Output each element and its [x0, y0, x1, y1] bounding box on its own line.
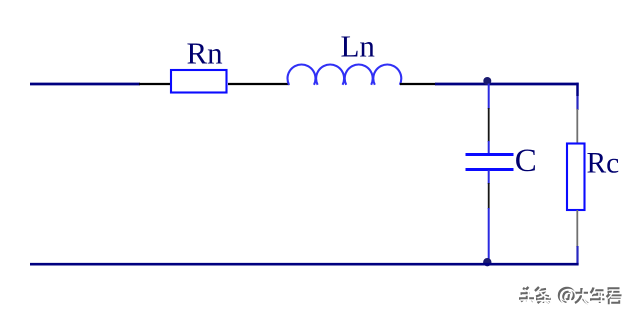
wire gray lead below Rc — [576, 210, 578, 247]
svg-text:Rc: Rc — [587, 148, 620, 180]
wire capacitor branch blue stub above plate — [488, 141, 490, 154]
svg-text:C: C — [515, 143, 537, 179]
wire capacitor branch blue stub below junction — [488, 84, 490, 110]
wire black lead into Rn — [139, 83, 170, 85]
watermark white emboss highlight — [520, 288, 623, 305]
wire capacitor branch black segment lower — [488, 183, 490, 209]
svg-text:Ln: Ln — [341, 29, 376, 64]
svg-text:Rn: Rn — [187, 36, 224, 71]
capacitor C1 bottom plate — [466, 168, 514, 171]
watermark gray layer 头条@大年君 — [519, 287, 622, 304]
wire gray lead into Rc — [576, 109, 578, 144]
resistor R1 Rn body — [171, 70, 227, 93]
wire top navy to right corner — [435, 83, 579, 86]
wire right vertical navy upper — [576, 83, 578, 110]
wire blue stub to bottom corner — [576, 246, 578, 265]
resistor R2 Rc body — [567, 144, 585, 211]
capacitor C1 top plate — [466, 153, 514, 156]
wire capacitor branch blue lower — [488, 208, 490, 262]
wire bottom navy — [30, 263, 579, 266]
node junction bottom at capacitor branch — [483, 258, 491, 266]
node junction top at capacitor branch — [483, 77, 491, 85]
wire capacitor branch black segment upper — [488, 108, 490, 142]
wire capacitor branch blue stub below plate — [488, 170, 490, 184]
inductor L1 Ln coil — [288, 64, 402, 84]
wire black lead Rn to Ln — [228, 83, 290, 85]
wire black lead after Ln — [400, 83, 436, 85]
wire top-left navy segment — [30, 83, 140, 86]
